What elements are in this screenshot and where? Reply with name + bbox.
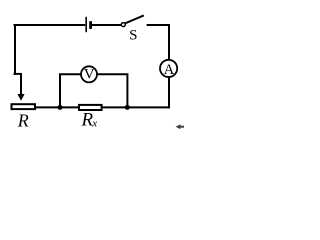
ammeter A <box>160 60 177 77</box>
wire top left horizontal <box>14 24 86 26</box>
wire right vertical upper <box>168 24 170 60</box>
wire battery to switch <box>92 24 121 26</box>
voltmeter V <box>81 66 97 82</box>
resistor R <box>12 104 36 109</box>
svg-text:A: A <box>164 62 175 78</box>
wire voltmeter left vertical <box>60 74 81 106</box>
wire left vertical <box>14 24 16 74</box>
slider arrowhead <box>17 94 24 101</box>
battery cell long plate <box>85 17 87 32</box>
artifact gray arrow <box>176 124 184 129</box>
svg-text:S: S <box>129 28 137 44</box>
wire switch to top right corner <box>147 24 170 26</box>
node A junction dot <box>58 105 63 110</box>
wire Rx to bottom right corner <box>102 106 170 108</box>
battery cell short plate <box>89 21 92 29</box>
wire voltmeter right vertical <box>97 74 127 106</box>
svg-text:x: x <box>91 118 97 130</box>
resistor Rx <box>79 105 102 110</box>
svg-text:R: R <box>17 111 29 131</box>
switch blade <box>126 15 144 23</box>
switch pivot <box>121 23 125 27</box>
wire slider stem <box>20 73 22 95</box>
wire R to node A <box>36 106 79 108</box>
svg-text:V: V <box>84 67 95 83</box>
wire jog to slider <box>14 73 22 75</box>
wire right vertical lower <box>168 77 170 108</box>
node B junction dot <box>125 105 130 110</box>
